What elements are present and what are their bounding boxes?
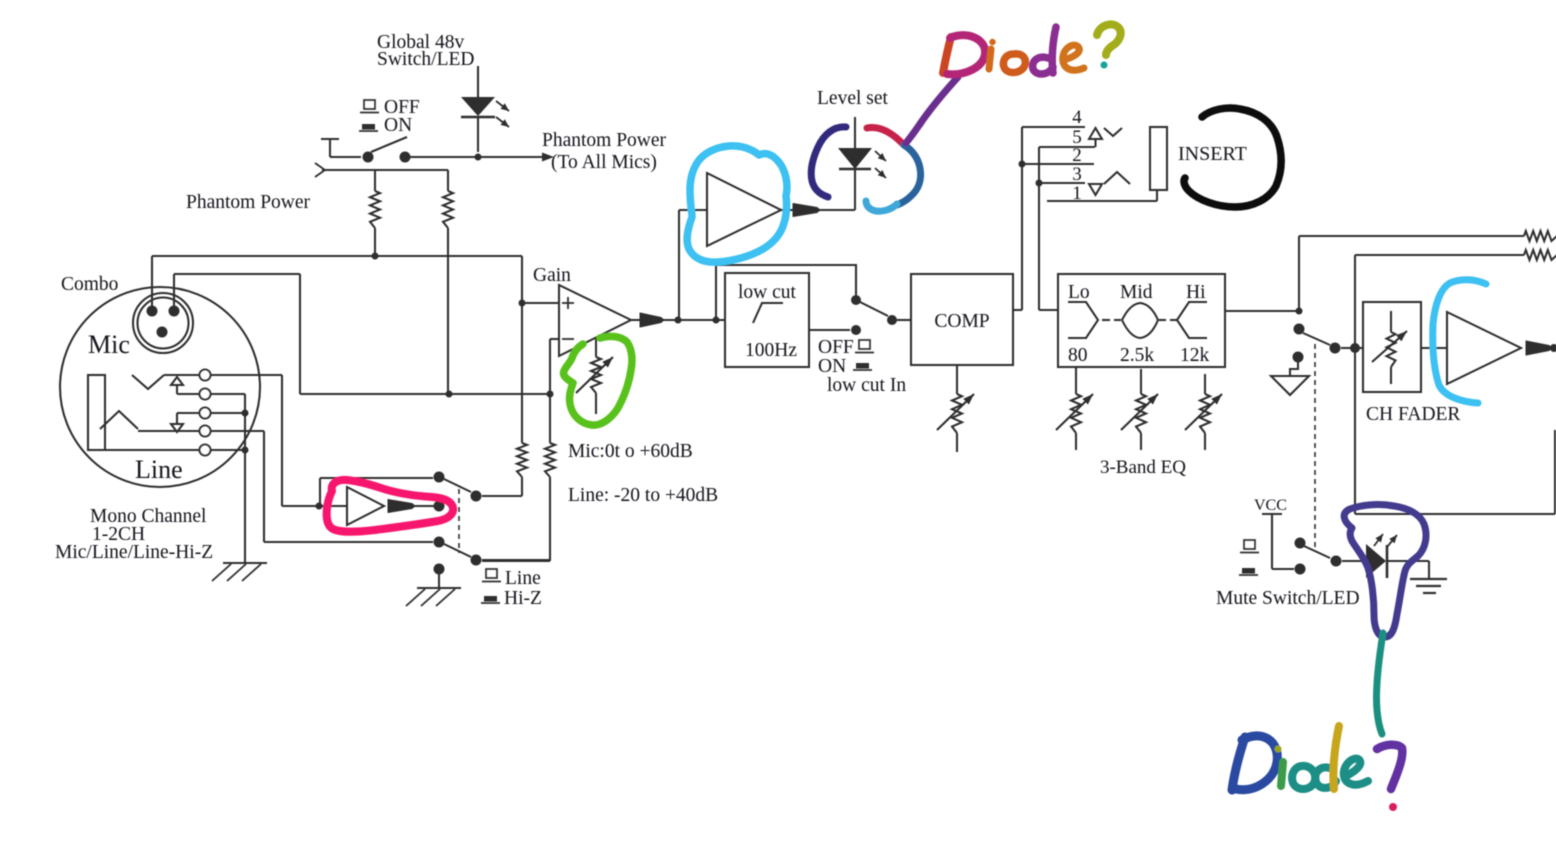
connector XLR outer xyxy=(133,293,193,353)
svg-text:Phantom Power: Phantom Power xyxy=(186,192,311,213)
switch Hi-Z icon xyxy=(484,596,497,602)
wire S3 gnd stub xyxy=(438,569,440,588)
ground mute triangle xyxy=(1271,376,1309,395)
block COMP box xyxy=(911,274,1013,365)
pin XLR 3 xyxy=(169,306,180,317)
op-amp fader U4 xyxy=(1447,312,1521,384)
LED D3 emission arrows xyxy=(1374,534,1383,546)
junction R2 to pin3 rail xyxy=(446,391,453,398)
LED D2 emission arrows xyxy=(875,151,886,161)
annotation i top xyxy=(989,49,991,69)
annotation lightblue arc LED2 xyxy=(866,201,897,211)
switch S6 throw A xyxy=(1295,538,1306,549)
potentiometer Mid pot xyxy=(1140,369,1142,394)
svg-text:Mid: Mid xyxy=(1120,282,1153,303)
switch S4 lever xyxy=(860,302,888,316)
svg-text:4: 4 xyxy=(1072,107,1082,128)
wire eq dash1 xyxy=(1102,319,1110,321)
wire bus left xyxy=(1354,255,1356,514)
switch S2 lever xyxy=(444,479,471,492)
op-amp levelset U3 xyxy=(707,173,781,246)
switch lowcut ON icon xyxy=(856,363,869,369)
terminal T2 xyxy=(200,389,211,400)
svg-text:ON: ON xyxy=(384,115,412,136)
op-amp buffer U2 xyxy=(347,487,384,525)
icon low shelf xyxy=(1068,302,1098,338)
LED D2 level xyxy=(854,170,856,210)
annotation question bottom xyxy=(1377,745,1402,789)
wire R2 bottom lead xyxy=(447,228,449,394)
terminal T1 xyxy=(200,370,211,381)
switch S3 throw B xyxy=(434,564,445,575)
annotation o bottom xyxy=(1292,766,1315,789)
svg-text:INSERT: INSERT xyxy=(1178,143,1247,165)
switch S4 throw bypass xyxy=(851,295,861,305)
junction levelset tap xyxy=(675,317,682,324)
wire gain+ resistor lead xyxy=(521,303,523,443)
wire insert pin2 xyxy=(1022,163,1094,165)
wire lowcut out xyxy=(809,329,850,331)
wire comp out xyxy=(1013,309,1022,311)
switch S6 common xyxy=(1331,556,1342,567)
junction fader node xyxy=(1350,343,1360,353)
pin gain plus xyxy=(562,302,574,304)
annotation o top xyxy=(1003,54,1025,73)
wire ground drop xyxy=(244,394,246,563)
svg-text:Combo: Combo xyxy=(61,274,118,295)
jack tip spring V xyxy=(132,375,164,389)
icon high shelf xyxy=(1177,302,1207,338)
svg-text:3-Band EQ: 3-Band EQ xyxy=(1100,457,1186,478)
wire gain- resistor lead xyxy=(549,394,551,443)
connector combo circle xyxy=(60,287,260,487)
wire S4 to comp xyxy=(897,319,911,321)
svg-text:low cut In: low cut In xyxy=(827,375,906,396)
switch S1 contact left xyxy=(363,152,374,163)
switch S5 throw gnd xyxy=(1293,352,1304,363)
wire jack row4 xyxy=(138,430,199,432)
pin XLR 2 xyxy=(147,306,158,317)
arrow buffer out xyxy=(388,500,415,513)
resistor R gain- term xyxy=(545,443,555,477)
annotation navy arc LED2 xyxy=(811,127,846,197)
svg-text:Level set: Level set xyxy=(817,88,889,109)
switch S2 throw A xyxy=(434,472,445,483)
wire eq dash2 xyxy=(1159,319,1166,321)
wire R2 top lead xyxy=(447,170,449,191)
annotation crimson arc LED2 xyxy=(867,127,904,145)
junction LED1 anode xyxy=(475,154,482,161)
svg-text:(To All Mics): (To All Mics) xyxy=(551,152,657,173)
wire VCC bar xyxy=(1262,513,1282,515)
svg-text:Mic: Mic xyxy=(88,330,130,359)
svg-text:Mic/Line/Line-Hi-Z: Mic/Line/Line-Hi-Z xyxy=(55,542,213,563)
svg-text:Line: Line xyxy=(135,455,183,484)
switch S4 common xyxy=(887,315,897,325)
switch gang dash mute xyxy=(1314,344,1316,549)
annotation d top xyxy=(1033,57,1053,74)
svg-text:low cut: low cut xyxy=(738,282,797,303)
wire bus bottom xyxy=(1355,513,1555,515)
svg-text:100Hz: 100Hz xyxy=(745,340,797,361)
resistor R phantom B xyxy=(443,191,453,228)
switch Line icon xyxy=(486,569,497,578)
terminal T5 xyxy=(200,445,211,456)
block 3-band EQ box xyxy=(1058,274,1225,367)
svg-text:VCC: VCC xyxy=(1254,497,1287,514)
wire levelset up xyxy=(678,210,680,320)
junction lowcut bypass tap xyxy=(713,317,720,324)
pin XLR 1 xyxy=(157,327,168,338)
contact ring arrow xyxy=(1089,184,1102,195)
junction return pin3 xyxy=(1036,180,1043,187)
wire levelset out xyxy=(818,209,855,211)
switch S5 common xyxy=(1330,343,1341,354)
wire rail XLR pin2 to gain+ xyxy=(152,255,522,257)
resistor R top B xyxy=(1524,250,1556,260)
wire buffer out xyxy=(413,505,434,507)
wire insert pin5 xyxy=(1039,146,1095,148)
svg-text:12k: 12k xyxy=(1180,345,1210,366)
wire feedback top B xyxy=(1355,254,1524,256)
block CH FADER box xyxy=(1363,302,1421,392)
jack tip arrow xyxy=(171,377,183,385)
arrow gain out xyxy=(631,319,641,321)
contact tip arrow xyxy=(1089,128,1102,139)
arrow levelset out xyxy=(781,209,794,211)
switch S1 OFF icon xyxy=(364,100,375,109)
LED D1 emission arrows xyxy=(496,101,509,111)
switch S2 throw B xyxy=(434,501,445,512)
wire S2 common out xyxy=(482,495,522,497)
svg-text:Lo: Lo xyxy=(1068,282,1090,303)
junction T5 gnd xyxy=(242,447,249,454)
icon highpass xyxy=(753,303,783,323)
connector XLR inner xyxy=(138,298,189,349)
annotation question top xyxy=(1097,24,1121,55)
potentiometer Lo pot xyxy=(1075,367,1077,394)
junction send pin2 xyxy=(1019,161,1026,168)
svg-text:Hi: Hi xyxy=(1186,282,1206,303)
wire S3 common out xyxy=(482,559,550,561)
terminal T4 xyxy=(200,426,211,437)
jack ring spring xyxy=(100,411,138,429)
ground earth LED3 xyxy=(1410,578,1447,580)
wire R3 bottom lead xyxy=(521,477,523,496)
wire T3 out xyxy=(211,412,245,414)
junction T3 gnd xyxy=(242,410,249,417)
contact ring spring xyxy=(1104,172,1130,184)
switch lowcut OFF icon xyxy=(859,340,870,349)
junction eq out xyxy=(1296,308,1303,315)
annotation purple loop mute LED xyxy=(1344,505,1426,637)
switch S3 lever xyxy=(444,544,471,557)
wire insert pin3 xyxy=(1039,182,1085,184)
resistor R top A xyxy=(1524,231,1556,241)
junction minus node xyxy=(547,391,554,398)
annotation d bottom xyxy=(1315,767,1336,788)
annotation D top xyxy=(943,37,951,73)
wire T5 out xyxy=(211,449,245,451)
svg-text:3: 3 xyxy=(1072,164,1082,185)
wire R1 top lead xyxy=(374,170,376,191)
wire to fader xyxy=(1341,347,1363,349)
jack INSERT body xyxy=(1150,127,1167,190)
node phantom feed arrow xyxy=(315,163,325,177)
wire gain out xyxy=(663,319,725,321)
potentiometer gain pot xyxy=(595,338,597,357)
wire insert pin4 xyxy=(1022,126,1085,128)
wire jack row3 stub xyxy=(177,412,199,414)
svg-text:Line: Line xyxy=(505,568,541,589)
switch S5 throw signal xyxy=(1294,324,1305,335)
svg-text:ON: ON xyxy=(818,356,846,377)
svg-text:COMP: COMP xyxy=(934,311,989,332)
svg-text:Mic:0t o +60dB: Mic:0t o +60dB xyxy=(568,441,693,462)
contact tip notch xyxy=(1104,128,1122,136)
wire mute gnd lead xyxy=(1290,360,1298,376)
wire phantom out xyxy=(410,156,546,158)
ground chassis combo xyxy=(223,562,267,564)
switch mute ON icon xyxy=(1242,568,1255,574)
annotation black loop INSERT xyxy=(1184,108,1281,207)
LED D3 mute xyxy=(1366,544,1386,578)
wire S6 to LED xyxy=(1342,560,1366,562)
wire bypass xyxy=(319,478,321,506)
wire jack row1 xyxy=(164,374,199,376)
wire gain+ drop xyxy=(521,256,523,303)
wire to gain + input xyxy=(522,302,559,304)
annotation cyan loop levelset amp xyxy=(687,146,787,262)
wire T4 out xyxy=(211,430,264,432)
junction out node xyxy=(1550,344,1556,352)
wire eq out xyxy=(1225,310,1299,312)
wire S1 feed T-bar xyxy=(321,138,339,140)
wire R1 bottom lead xyxy=(374,228,376,256)
switch mute OFF icon xyxy=(1244,540,1255,549)
potentiometer comp pot xyxy=(956,365,958,394)
wire return to EQ xyxy=(1039,309,1058,311)
switch S5 lever xyxy=(1303,333,1330,345)
icon mid bell xyxy=(1122,303,1158,338)
switch S1 contact right xyxy=(400,152,411,163)
svg-text:Gain: Gain xyxy=(533,265,571,286)
junction gain+ node xyxy=(519,300,526,307)
junction buffer input xyxy=(316,503,323,510)
potentiometer fader pot xyxy=(1390,311,1392,332)
ground chassis S3 xyxy=(417,587,461,589)
wire bus right xyxy=(1554,430,1556,514)
switch gang dash xyxy=(458,489,460,553)
annotation D bottom xyxy=(1232,737,1245,790)
wire insert send riser xyxy=(1021,127,1023,310)
pin gain minus xyxy=(562,338,574,340)
op-amp gain U1 xyxy=(559,285,631,356)
svg-text:Hi-Z: Hi-Z xyxy=(504,588,542,609)
wire R4 bottom lead xyxy=(549,477,551,561)
svg-text:80: 80 xyxy=(1068,345,1088,366)
switch S1 ON icon xyxy=(362,124,375,130)
svg-text:Phantom Power: Phantom Power xyxy=(542,130,667,151)
wire XLR pin2 up xyxy=(151,256,153,308)
wire insert pin1 xyxy=(1047,200,1157,202)
terminal T3 xyxy=(200,408,211,419)
switch S1 lever xyxy=(371,137,407,152)
wire jack row5 xyxy=(105,449,199,451)
arrow fader out xyxy=(1526,341,1552,355)
svg-text:Mute Switch/LED: Mute Switch/LED xyxy=(1216,588,1360,609)
LED D1 global 48v xyxy=(477,66,479,97)
wire LED3 to gnd xyxy=(1387,560,1429,562)
wire pin3 drop xyxy=(299,274,301,394)
svg-text:Switch/LED: Switch/LED xyxy=(377,49,475,70)
annotation purple tail xyxy=(906,77,958,143)
switch S4 throw filter xyxy=(851,325,861,335)
resistor R phantom A xyxy=(370,191,380,228)
switch S3 throw A xyxy=(434,537,445,548)
wire T4 drop xyxy=(263,431,265,542)
wire phantom feed xyxy=(322,169,448,171)
wire to buffer amp xyxy=(282,505,347,507)
switch S2 common xyxy=(471,491,482,502)
arrow phantom power out xyxy=(542,153,554,162)
resistor R gain+ term xyxy=(517,443,527,477)
block low cut box xyxy=(725,273,809,367)
wire T2 out xyxy=(211,393,245,395)
svg-text:2.5k: 2.5k xyxy=(1120,345,1154,366)
wire fader to amp xyxy=(1421,347,1447,349)
annotation teal tail xyxy=(1376,633,1383,734)
wire jack row2 xyxy=(177,393,199,395)
svg-text:Line: -20 to +40dB: Line: -20 to +40dB xyxy=(568,485,718,506)
wire feedback top A xyxy=(1298,236,1300,311)
wire lowcut bypass xyxy=(716,265,856,320)
svg-text:OFF: OFF xyxy=(818,337,854,358)
svg-text:1: 1 xyxy=(1072,183,1082,204)
svg-text:CH FADER: CH FADER xyxy=(1366,404,1460,425)
wire rail XLR pin3 xyxy=(174,273,300,275)
annotation e bottom xyxy=(1344,759,1368,785)
wire T1 drop xyxy=(281,375,283,506)
wire to gain - input xyxy=(549,339,551,394)
annotation e top xyxy=(1063,45,1084,70)
switch S3 common xyxy=(471,555,482,566)
annotation green loop gain pot xyxy=(564,336,632,425)
wire rail mic minus xyxy=(300,393,550,395)
switch S6 lever xyxy=(1304,546,1330,558)
annotation cyan bracket fader amp xyxy=(1433,280,1486,403)
switch S6 throw B xyxy=(1295,564,1306,575)
junction R1 to pin2 rail xyxy=(372,253,379,260)
jack ring arrow xyxy=(176,413,178,424)
annotation pink loop buffer amp xyxy=(327,480,453,532)
annotation blue arc LED2 xyxy=(897,145,921,205)
jack sleeve bar xyxy=(88,375,105,450)
svg-text:2: 2 xyxy=(1072,145,1082,166)
wire insert return riser xyxy=(1038,147,1040,310)
wire XLR pin3 up xyxy=(173,274,175,308)
annotation i bottom xyxy=(1281,762,1283,786)
wire T1 out xyxy=(211,374,282,376)
potentiometer Hi pot xyxy=(1204,374,1206,394)
